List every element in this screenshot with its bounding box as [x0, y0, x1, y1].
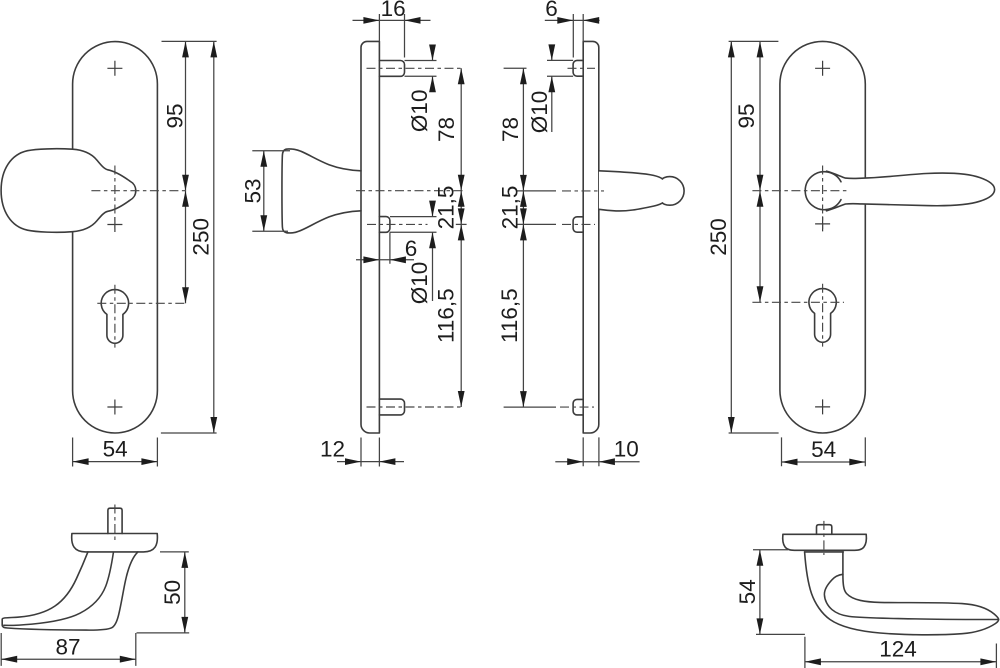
dimension 54 (right plate width) — [782, 437, 866, 466]
dimension 54 (bottom-right handle height) — [753, 550, 805, 635]
centerline vertical through cylinder hole (right) — [822, 284, 824, 347]
centerline middle boss — [367, 223, 428, 225]
screw hole cross bottom (right plate) — [815, 399, 830, 414]
lever neck fill (side view) — [599, 171, 667, 211]
dimension 54 (left plate width) — [73, 438, 158, 467]
dimension 12 (plate thickness) — [337, 438, 404, 467]
centerline top boss (lever plate) — [568, 67, 596, 69]
centerline bottom boss — [367, 406, 465, 408]
lever grip fill (front view) — [827, 171, 995, 211]
screw boss middle (lever plate) — [573, 217, 583, 232]
centerline vertical through cylinder hole — [114, 285, 116, 348]
rose collar (bottom-left handle) — [72, 534, 158, 552]
svg-text:21,5: 21,5 — [434, 186, 459, 230]
svg-text:78: 78 — [498, 117, 523, 142]
screw boss bottom (lever plate) — [573, 399, 583, 415]
dimension diameter 10 top boss — [405, 47, 437, 92]
screw hole cross below axis (left plate) — [107, 217, 122, 232]
svg-text:10: 10 — [614, 437, 639, 462]
lever inner contour (bottom-right handle) — [824, 574, 998, 619]
svg-text:54: 54 — [811, 437, 836, 462]
euro profile cylinder hole (right plate) — [809, 289, 836, 343]
screw boss bottom (knob plate) — [379, 399, 404, 415]
screw boss top (knob plate) — [379, 61, 404, 77]
screw boss middle (knob plate) — [379, 217, 390, 233]
lever boss circle arc (front view) — [805, 172, 841, 210]
dimension 87 (bottom-left handle length) — [1, 633, 136, 666]
screw hole cross top (right plate) — [815, 61, 830, 76]
svg-text:12: 12 — [320, 437, 345, 462]
lever neck bottom edge (side view) — [599, 203, 663, 211]
svg-text:Ø10: Ø10 — [527, 91, 552, 134]
spindle (bottom-right handle) — [817, 525, 832, 535]
figure 5: knob-lever profile bottom left — [1, 505, 189, 666]
lever outline (bottom-left handle) — [2, 552, 138, 630]
svg-text:21,5: 21,5 — [497, 186, 522, 230]
figure 2: side view of knob plate — [241, 0, 467, 467]
extension line top (left plate) — [162, 40, 217, 42]
centerline top boss — [367, 67, 465, 69]
screw hole cross bottom (left plate) — [107, 400, 122, 415]
centerline vertical through lever axis — [822, 166, 824, 230]
dimension axis to cylinder (right, unlabeled) — [759, 191, 761, 303]
rose collar (bottom-right handle) — [783, 534, 867, 550]
figure 6: lever profile bottom right — [735, 521, 999, 668]
svg-text:54: 54 — [735, 579, 760, 604]
extension middle boss axis (lever plate) — [517, 223, 556, 225]
euro profile cylinder hole (left plate) — [101, 290, 128, 344]
dimension 95 (left) — [185, 41, 187, 190]
svg-text:54: 54 — [103, 437, 128, 462]
centerline horizontal through lever axis — [752, 190, 849, 192]
dimension 53 (knob height) — [252, 151, 290, 232]
extension line bottom (right plate) — [729, 432, 779, 434]
centerline vertical through knob axis — [114, 166, 116, 229]
dimension axis to cylinder (left, unlabeled) — [185, 191, 187, 304]
lever grip end circle (side view) — [656, 177, 685, 206]
lever inner contour (bottom-left handle) — [4, 553, 114, 626]
figure 3: side view of lever plate (mirrored) — [497, 0, 684, 466]
lever grip outline (front view) — [827, 171, 995, 211]
svg-text:87: 87 — [55, 634, 80, 659]
figure 4: front view of lever backplate — [706, 41, 995, 466]
extension bottom boss axis (lever plate) — [504, 406, 556, 408]
backplate (front view, right) — [780, 41, 865, 433]
centerline lever axis (side view) — [562, 190, 604, 192]
screw hole cross below axis (right plate) — [815, 216, 830, 231]
dimension 6 (middle boss projection) — [356, 232, 414, 263]
svg-text:53: 53 — [241, 178, 266, 203]
svg-text:95: 95 — [734, 103, 759, 128]
dimension 16 (boss projection) — [353, 14, 431, 58]
centerline horizontal through cylinder hole — [97, 302, 187, 304]
knob profile (side view) — [282, 149, 361, 233]
svg-text:16: 16 — [381, 0, 406, 21]
centerline knob axis (side view) — [356, 190, 464, 192]
spindle centerline (bottom-right handle) — [823, 521, 825, 555]
chained dimensions 78 / 21,5 / 116,5 (knob plate) — [460, 68, 462, 407]
svg-text:6: 6 — [545, 0, 558, 21]
spindle centerline (bottom-left handle) — [114, 505, 116, 542]
neck joint line (bottom-right handle) — [805, 551, 844, 553]
centerline bottom boss (lever plate) — [560, 406, 594, 408]
extension lever axis (lever plate) — [517, 190, 556, 192]
knob with neck bump (front view) — [1, 149, 136, 233]
centerline middle boss (lever plate) — [562, 223, 595, 225]
svg-text:250: 250 — [706, 218, 731, 256]
svg-text:Ø10: Ø10 — [407, 90, 432, 133]
svg-text:250: 250 — [188, 218, 213, 256]
backplate (front view, left) — [73, 42, 158, 433]
dimension 250 (right) — [730, 41, 732, 433]
svg-text:124: 124 — [879, 637, 917, 662]
svg-text:50: 50 — [160, 580, 185, 605]
svg-text:6: 6 — [405, 236, 418, 261]
screw hole cross top (left plate) — [107, 61, 122, 76]
dimension 10 (lever plate thickness) — [555, 437, 639, 466]
lever outline (bottom-right handle) — [805, 552, 999, 635]
dimension 124 (bottom-right handle length) — [805, 637, 997, 668]
chain boundary tick (knob plate) — [456, 223, 467, 225]
chained dimensions 78 / 21,5 / 116,5 (lever plate) — [522, 68, 524, 407]
dimension diameter 10 middle boss — [390, 202, 437, 301]
lever neck top edge (side view) — [599, 171, 663, 179]
svg-text:116,5: 116,5 — [433, 288, 458, 343]
plate profile (knob side view) — [361, 41, 379, 433]
svg-text:78: 78 — [434, 117, 459, 142]
dimension 95 (right) — [759, 41, 761, 190]
dimension 6 (lever plate boss projection) — [545, 14, 600, 58]
centerline horizontal through knob axis — [91, 190, 187, 192]
extension line bottom (left plate) — [161, 432, 217, 434]
dimension diameter 10 (lever plate boss) — [547, 47, 573, 133]
dimension 50 (bottom-left handle height) — [137, 552, 190, 633]
svg-text:Ø10: Ø10 — [407, 262, 432, 305]
svg-text:116,5: 116,5 — [497, 288, 522, 343]
extension top boss axis (lever plate) — [504, 67, 527, 69]
centerline horizontal through cylinder hole (right) — [752, 301, 844, 303]
screw boss top (lever plate) — [573, 60, 583, 76]
dimension 250 (left) — [213, 41, 215, 433]
spindle (bottom-left handle) — [108, 508, 122, 533]
extension line top (right plate) — [729, 40, 779, 42]
plate profile (lever side view) — [583, 41, 599, 433]
figure 1: front view of knob backplate — [1, 41, 217, 466]
svg-text:95: 95 — [162, 103, 187, 128]
